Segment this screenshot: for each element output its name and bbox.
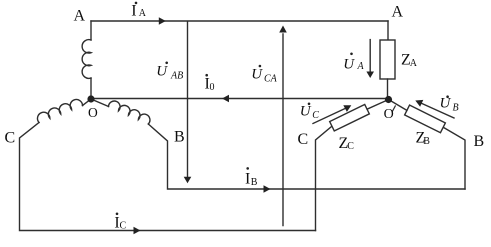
svg-text:B: B bbox=[174, 129, 185, 146]
svg-text:C: C bbox=[312, 110, 319, 121]
svg-text:0: 0 bbox=[210, 82, 215, 93]
svg-text:B: B bbox=[423, 136, 430, 147]
svg-text:U: U bbox=[300, 104, 312, 120]
svg-text:B: B bbox=[474, 133, 485, 150]
svg-text:A: A bbox=[357, 61, 365, 72]
svg-text:O: O bbox=[88, 105, 98, 120]
svg-text:I: I bbox=[245, 171, 250, 188]
svg-text:C: C bbox=[347, 141, 354, 152]
svg-text:A: A bbox=[74, 8, 86, 25]
svg-text:O: O bbox=[384, 107, 394, 122]
svg-text:U: U bbox=[440, 96, 452, 112]
svg-text:A: A bbox=[410, 58, 418, 69]
svg-text:U: U bbox=[343, 57, 355, 73]
svg-text:I: I bbox=[131, 3, 136, 20]
svg-text:C: C bbox=[298, 131, 309, 148]
svg-text:B: B bbox=[251, 177, 258, 188]
svg-text:C: C bbox=[120, 221, 127, 232]
svg-text:U: U bbox=[156, 64, 168, 80]
svg-text:B: B bbox=[453, 103, 459, 114]
svg-text:U: U bbox=[251, 67, 263, 83]
svg-text:CA: CA bbox=[264, 74, 278, 85]
svg-text:AB: AB bbox=[170, 71, 183, 82]
svg-text:A: A bbox=[139, 8, 147, 19]
svg-text:C: C bbox=[5, 130, 16, 147]
svg-text:A: A bbox=[392, 4, 404, 21]
